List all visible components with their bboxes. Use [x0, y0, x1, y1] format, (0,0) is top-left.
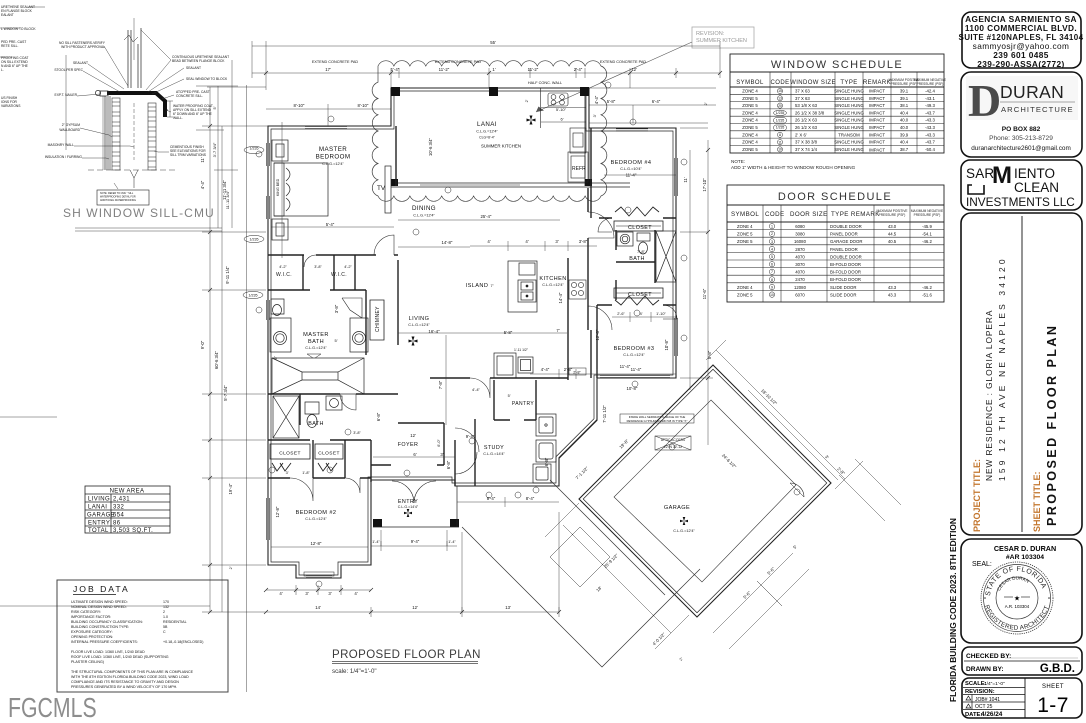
svg-text:scale: 1/4"=1'-0": scale: 1/4"=1'-0": [332, 668, 377, 675]
title block: checked/drawn: [966, 653, 1078, 675]
wall: foyer north: [398, 422, 444, 424]
svg-text:40.5: 40.5: [888, 239, 897, 244]
svg-text:55': 55': [490, 40, 496, 45]
wall: kitchen counter wall east: [567, 258, 569, 380]
svg-text:3,503 SQ.FT.: 3,503 SQ.FT.: [113, 528, 153, 534]
dim: bedroom2 12-8: [271, 546, 368, 548]
svg-text:3'-7 3/4": 3'-7 3/4": [212, 142, 217, 157]
fan: entry: [404, 509, 412, 517]
svg-text:17'-10": 17'-10": [702, 178, 707, 192]
svg-text:-45.9: -45.9: [922, 224, 932, 229]
wall: master bedroom south: [268, 254, 398, 256]
fan: garage: [680, 517, 688, 525]
svg-text:3: 3: [771, 240, 773, 244]
svg-text:NEW AREA: NEW AREA: [110, 489, 145, 495]
svg-text:C.L.G.=12'4": C.L.G.=12'4": [476, 130, 498, 134]
svg-text:9'-11 1/4": 9'-11 1/4": [225, 266, 230, 284]
svg-text:2'-4": 2'-4": [574, 67, 583, 72]
wall: bath2 / shower divider: [299, 394, 301, 425]
wall: closet divider and right: [313, 440, 345, 478]
svg-text:-54.1: -54.1: [922, 232, 932, 237]
bay window in bedroom2: [304, 572, 334, 578]
svg-text:5: 5: [771, 255, 773, 259]
svg-text:1/235: 1/235: [776, 126, 785, 130]
svg-text:PRESSURE (PSF): PRESSURE (PSF): [891, 82, 918, 86]
svg-text:ZONE 5: ZONE 5: [742, 103, 758, 108]
svg-text:BEDROOM #4: BEDROOM #4: [611, 160, 652, 166]
garage outer wall: [579, 365, 831, 617]
svg-text:38.1: 38.1: [900, 103, 909, 108]
svg-text:ZONE 4: ZONE 4: [737, 285, 753, 290]
svg-text:C.L.G.=12'4": C.L.G.=12'4": [542, 283, 564, 287]
window schedule rows: [742, 89, 935, 153]
svg-text:1'-10": 1'-10": [656, 312, 666, 316]
wall: foyer east wall: [370, 440, 372, 482]
svg-text:4'-4": 4'-4": [541, 367, 550, 372]
svg-text:53 1/8 X 63: 53 1/8 X 63: [795, 103, 818, 108]
svg-text:CLOSET: CLOSET: [318, 451, 340, 457]
svg-text:1/235: 1/235: [776, 111, 785, 115]
svg-text:REVISION:: REVISION:: [965, 689, 995, 695]
garage slab inner line: [614, 400, 796, 582]
svg-text:5'-8": 5'-8": [707, 350, 712, 359]
svg-text:ZONE 4: ZONE 4: [737, 224, 753, 229]
svg-text:IMPACT: IMPACT: [869, 110, 885, 115]
svg-text:BI-FOLD DOOR: BI-FOLD DOOR: [830, 262, 861, 267]
svg-text:DRAWN BY:: DRAWN BY:: [966, 666, 1004, 673]
svg-text:OPENING PROTECTION:: OPENING PROTECTION:: [71, 635, 113, 639]
wall: master bath south / bath2 north: [268, 393, 398, 395]
svg-text:10'-8": 10'-8": [627, 386, 638, 391]
svg-text:PANTRY: PANTRY: [512, 401, 534, 407]
svg-text:SEALANT: SEALANT: [73, 61, 88, 65]
dim labels: [279, 40, 666, 610]
svg-text:EALANT: EALANT: [1, 13, 14, 17]
svg-text:DOOR SIZE: DOOR SIZE: [790, 211, 828, 218]
svg-text:20: 20: [778, 104, 782, 108]
svg-text:ZONE 5: ZONE 5: [737, 232, 753, 237]
svg-text:2: 2: [163, 610, 165, 614]
svg-text:IMPORTANCE FACTOR:: IMPORTANCE FACTOR:: [71, 615, 111, 619]
detail: cmu block wall with ladder hatch: [112, 98, 156, 188]
svg-text:BEDROOM #2: BEDROOM #2: [296, 510, 337, 516]
svg-text:C.L.G.=12'4": C.L.G.=12'4": [413, 214, 435, 218]
svg-text:IMPACT: IMPACT: [869, 89, 885, 94]
svg-text:C.L.G.=12'4": C.L.G.=12'4": [673, 529, 695, 533]
svg-text:2,431: 2,431: [113, 497, 130, 503]
svg-text:SINGLE HUNG: SINGLE HUNG: [834, 125, 864, 130]
svg-text:8'-4": 8'-4": [487, 496, 496, 501]
svg-text:SEAL:: SEAL:: [972, 561, 992, 568]
svg-text:RESIDENTIAL: RESIDENTIAL: [163, 620, 187, 624]
column: lanai N mid: [489, 87, 498, 96]
detail: leader lines right: [141, 30, 184, 152]
title block: sarmiento clean logo: [966, 162, 1075, 209]
svg-text:MASTER: MASTER: [303, 332, 329, 338]
svg-text:duranarchitecture2601@gmail.co: duranarchitecture2601@gmail.com: [971, 145, 1071, 152]
svg-text:1/235: 1/235: [249, 294, 258, 298]
svg-text:BUILDING OCCUPANCY CLASSIFIC: BUILDING OCCUPANCY CLASSIFICATION:: [71, 620, 143, 624]
svg-text:PROPOSED FLOOR PLAN: PROPOSED FLOOR PLAN: [1045, 324, 1059, 526]
svg-text:11'-2": 11'-2": [439, 67, 450, 72]
svg-text:OCT 25: OCT 25: [975, 704, 993, 710]
svg-text:EXPOSURE CATEGORY:: EXPOSURE CATEGORY:: [71, 630, 113, 634]
svg-text:7'-11 1/2": 7'-11 1/2": [602, 405, 607, 423]
door number circles: [256, 82, 800, 587]
title block: checked/drawn box: [962, 647, 1082, 675]
exterior wall: house outline: [268, 88, 676, 578]
fixture: summer kitchen grill: [541, 88, 587, 128]
svg-text:C.L.G.=12'4": C.L.G.=12'4": [322, 162, 344, 166]
svg-text:1'-8": 1'-8": [302, 471, 310, 475]
svg-text:SINGLE HUNG: SINGLE HUNG: [834, 147, 864, 152]
svg-text:3070: 3070: [795, 262, 805, 267]
svg-text:WITH PRODUCT APPROVAL: WITH PRODUCT APPROVAL: [61, 45, 105, 49]
svg-text:SEALANT: SEALANT: [186, 66, 201, 70]
svg-text:REFR: REFR: [572, 166, 586, 172]
svg-text:ZONE 4: ZONE 4: [742, 140, 758, 145]
svg-text:10'-6 3/4": 10'-6 3/4": [428, 137, 433, 156]
interior walls: [268, 126, 676, 486]
svg-text:PRESSURE (PSF): PRESSURE (PSF): [879, 213, 906, 217]
svg-text:43.0: 43.0: [888, 224, 897, 229]
svg-text:LIVING: LIVING: [409, 316, 430, 322]
wall: chimney box: [370, 300, 384, 340]
svg-text:CLEAN: CLEAN: [1014, 180, 1059, 195]
svg-text:SINGLE HUNG: SINGLE HUNG: [834, 89, 864, 94]
svg-text:REMARK: REMARK: [863, 80, 891, 86]
svg-text:6: 6: [771, 263, 773, 267]
svg-text:37 X 38 3/8: 37 X 38 3/8: [795, 140, 818, 145]
svg-text:2870: 2870: [795, 247, 805, 252]
svg-text:ATTIC ACCESS: ATTIC ACCESS: [661, 438, 686, 442]
svg-text:BATH: BATH: [308, 339, 324, 345]
svg-text:INSULATION / FURRING: INSULATION / FURRING: [45, 155, 83, 159]
svg-text:39.1: 39.1: [900, 96, 909, 101]
svg-text:IENTO: IENTO: [1014, 166, 1055, 181]
svg-text:4070: 4070: [795, 254, 805, 259]
svg-text:2" GYPSUM: 2" GYPSUM: [62, 123, 80, 127]
svg-text:40.4: 40.4: [900, 110, 909, 115]
svg-text:SINGLE HUNG: SINGLE HUNG: [834, 103, 864, 108]
svg-text:PANEL DOOR: PANEL DOOR: [830, 247, 858, 252]
svg-text:-42.4: -42.4: [925, 89, 935, 94]
svg-text:WINDOW SIZE: WINDOW SIZE: [790, 80, 836, 86]
wall: study west: [454, 440, 456, 486]
entry walkway diagonals: [462, 480, 700, 667]
svg-text:G.B.D.: G.B.D.: [1040, 663, 1075, 675]
svg-text:10: 10: [778, 148, 782, 152]
svg-text:CLOSET: CLOSET: [628, 225, 652, 231]
svg-text:PLASTER CEILING): PLASTER CEILING): [71, 660, 104, 664]
svg-text:7: 7: [771, 270, 773, 274]
door schedule rows: [737, 224, 933, 297]
svg-text:THE STRUCTURAL COMPONENTS O: THE STRUCTURAL COMPONENTS OF THIS PLAN A…: [71, 670, 194, 674]
dim: bottom row2: [266, 611, 559, 613]
svg-text:STUDY: STUDY: [484, 445, 504, 451]
svg-text:GARAGE: GARAGE: [87, 513, 115, 519]
svg-text:40.4: 40.4: [900, 140, 909, 145]
svg-text:C.L.G.=10'4": C.L.G.=10'4": [620, 167, 642, 171]
title block: scale/revision/date + sheet number: [963, 678, 1069, 718]
dim: top row y73: [252, 72, 720, 74]
svg-text:9: 9: [771, 285, 773, 289]
east wall windows: [267, 129, 678, 540]
svg-text:N AND 6" UP THE: N AND 6" UP THE: [1, 64, 29, 68]
svg-text:FLORIDA BUILDING CODE 2023. 8T: FLORIDA BUILDING CODE 2023. 8TH EDITION: [948, 518, 958, 702]
svg-text:TYPE: TYPE: [840, 80, 857, 86]
svg-text:11'-11 3/4": 11'-11 3/4": [225, 190, 230, 209]
svg-text:1100 COMMERCIAL BLVD.: 1100 COMMERCIAL BLVD.: [965, 23, 1077, 33]
svg-text:43.3: 43.3: [888, 285, 897, 290]
svg-text:8: 8: [771, 278, 773, 282]
wall: bedroom4 west: [590, 128, 592, 218]
porch: entry front columns and slab: [373, 519, 382, 527]
svg-text:ADD 1" WIDTH & HEIGHT TO WINDO: ADD 1" WIDTH & HEIGHT TO WINDOW ROUGH OP…: [731, 165, 856, 170]
title block: duran logo: [966, 75, 1078, 152]
svg-text:2'-6": 2'-6": [617, 312, 625, 316]
svg-text:KING BED: KING BED: [276, 178, 280, 196]
svg-text:2'-8": 2'-8": [573, 370, 581, 374]
svg-text:4'-2": 4'-2": [279, 265, 287, 269]
dim: top overall 55': [252, 45, 720, 47]
wall: bedroom3 west: [596, 305, 598, 378]
svg-text:12': 12': [412, 605, 418, 610]
wall: bedroom3 south window: [600, 375, 670, 377]
detail: note box: [97, 190, 149, 205]
svg-text:11'-4": 11'-4": [620, 364, 631, 369]
svg-text:1/235: 1/235: [776, 118, 785, 122]
dim: below wing y374: [530, 373, 676, 375]
svg-text:CODE: CODE: [765, 211, 784, 218]
svg-text:14'-4": 14'-4": [558, 292, 563, 303]
svg-text:SAR: SAR: [966, 166, 994, 181]
title block: project title vertical text: [972, 256, 1059, 532]
fixture: bath3: [617, 231, 676, 282]
svg-text:12'-8": 12'-8": [275, 506, 280, 517]
svg-text:BEDROOM: BEDROOM: [316, 154, 351, 161]
closets: hall closets left: [270, 444, 343, 471]
svg-text:9'-0": 9'-0": [200, 340, 205, 349]
svg-text:2470: 2470: [795, 277, 805, 282]
dim: second row y87 master: [207, 86, 266, 88]
fixture: fridge pantry: [494, 353, 533, 378]
svg-text:BATH: BATH: [308, 421, 324, 427]
svg-text:REVISION:: REVISION:: [696, 31, 725, 37]
svg-text:LIVING: LIVING: [88, 497, 110, 503]
svg-text:FLOOR LIVE LOAD: 1/360 LIV: FLOOR LIVE LOAD: 1/360 LIVE, 1/240 DEAD: [71, 650, 145, 654]
svg-text:17': 17': [325, 67, 331, 72]
svg-text:8'-10": 8'-10": [294, 103, 305, 108]
svg-text:RETE SILL.: RETE SILL.: [1, 44, 18, 48]
svg-text:60'-6 3/4": 60'-6 3/4": [214, 350, 219, 369]
dim: right top: [589, 104, 716, 106]
svg-text:7': 7': [491, 283, 494, 288]
svg-text:1/235: 1/235: [250, 238, 259, 242]
closets: bedroom4 wing: [614, 207, 663, 305]
svg-text:132: 132: [163, 605, 169, 609]
svg-text:-43.3: -43.3: [925, 132, 935, 137]
svg-text:BUILDING CONSTRUCTION TYPE:: BUILDING CONSTRUCTION TYPE:: [71, 625, 129, 629]
entry double door arcs: [392, 481, 414, 503]
svg-text:16'-4": 16'-4": [428, 329, 440, 334]
rotated dim labels: [200, 95, 846, 661]
title block: seal box: [961, 539, 1082, 643]
title block: agencia sarmiento box: [962, 12, 1081, 68]
svg-text:CLOSET: CLOSET: [279, 451, 301, 457]
svg-text:1': 1': [492, 67, 495, 72]
svg-text:5'-8": 5'-8": [504, 330, 513, 335]
svg-text:TOTAL: TOTAL: [88, 528, 109, 534]
svg-text:86: 86: [113, 521, 121, 527]
svg-text:10'-8": 10'-8": [664, 339, 669, 350]
title block: sarmiento clean investments box: [961, 160, 1082, 210]
svg-text:PO BOX 882: PO BOX 882: [1002, 126, 1041, 133]
svg-text:ZONE 5: ZONE 5: [737, 239, 753, 244]
svg-text:239-290-ASSA(2772): 239-290-ASSA(2772): [977, 59, 1064, 69]
svg-text:9'-4": 9'-4": [466, 434, 475, 439]
svg-text:ROOF LIVE LOAD: 1/360 LIVE: ROOF LIVE LOAD: 1/360 LIVE, 1/240 DEAD (…: [71, 655, 169, 659]
svg-text:16080: 16080: [794, 239, 807, 244]
svg-text:GARAGE DOOR: GARAGE DOOR: [830, 239, 862, 244]
svg-text:25'-4": 25'-4": [481, 214, 492, 219]
svg-text:-46.2: -46.2: [922, 285, 932, 290]
svg-text:#AR 103304: #AR 103304: [1006, 554, 1044, 561]
svg-text:NOMINAL DESIGN WIND SPEED:: NOMINAL DESIGN WIND SPEED:: [71, 605, 127, 609]
svg-text:6': 6': [561, 117, 564, 122]
window schedule code symbols: [774, 88, 787, 152]
svg-text:DINING: DINING: [412, 205, 436, 212]
architect seal circle: [981, 562, 1053, 634]
svg-text:6070: 6070: [795, 292, 805, 297]
svg-text:19'-4": 19'-4": [228, 483, 233, 494]
new area table: [85, 486, 170, 533]
detail: ground dashes: [88, 169, 175, 171]
svg-text:WALL.: WALL.: [173, 116, 183, 120]
svg-text:13: 13: [778, 97, 782, 101]
svg-text:M: M: [992, 162, 1012, 189]
dim: garage SW outer: [563, 525, 671, 633]
detail: insulation/gypsum layers: [106, 96, 111, 170]
svg-text:ARCHITECTURE: ARCHITECTURE: [1001, 105, 1074, 114]
svg-text:3': 3': [305, 591, 308, 596]
detail: window jamb verticals: [124, 18, 141, 88]
svg-text:PANEL DOOR: PANEL DOOR: [830, 232, 858, 237]
wall: pantry west: [474, 419, 476, 486]
svg-text:3': 3': [328, 591, 331, 596]
svg-text:1'-4": 1'-4": [448, 540, 456, 544]
dim: left vertical main: [209, 87, 211, 612]
svg-text:43.3: 43.3: [888, 292, 897, 297]
svg-text:11'-4": 11'-4": [631, 367, 642, 372]
svg-text:2': 2': [525, 99, 529, 102]
svg-text:-43.3: -43.3: [925, 118, 935, 123]
detail: labels left: [45, 41, 106, 159]
fan: living: [409, 337, 418, 346]
dim: dining 25-4: [398, 219, 560, 221]
svg-text:L WINDOW TO BLOCK: L WINDOW TO BLOCK: [1, 27, 36, 31]
svg-text:IMPACT: IMPACT: [869, 125, 885, 130]
dim: kitchen row: [470, 245, 597, 247]
dim: bottom row1: [266, 589, 371, 591]
svg-text:1.0: 1.0: [163, 615, 168, 619]
svg-text:6'-4": 6'-4": [652, 99, 661, 104]
svg-text:8'-10": 8'-10": [358, 103, 369, 108]
svg-text:13': 13': [505, 605, 511, 610]
svg-text:D: D: [968, 75, 1001, 126]
svg-text:IMPACT: IMPACT: [869, 96, 885, 101]
svg-text:39.9: 39.9: [900, 132, 909, 137]
window schedule table frame: [730, 54, 944, 153]
svg-text:CODE: CODE: [771, 80, 790, 86]
svg-text:SUMMER KITCHEN: SUMMER KITCHEN: [481, 144, 521, 149]
svg-text:+0.18,-0.18(ENCLOSED): +0.18,-0.18(ENCLOSED): [163, 640, 203, 644]
svg-text:CESAR D. DURAN: CESAR D. DURAN: [994, 544, 1056, 553]
furniture: master bed: [272, 140, 328, 240]
svg-text:-43.3: -43.3: [925, 125, 935, 130]
svg-text:12'-8": 12'-8": [311, 541, 322, 546]
svg-text:PROJECT TITLE:: PROJECT TITLE:: [972, 459, 982, 532]
detail: leader lines left: [74, 46, 134, 189]
svg-text:ISLAND: ISLAND: [466, 283, 489, 289]
svg-text:IMPACT: IMPACT: [869, 148, 885, 153]
door schedule code symbols: [769, 224, 774, 298]
svg-text:15: 15: [778, 89, 782, 93]
svg-text:4: 4: [771, 247, 773, 251]
svg-text:3': 3': [286, 471, 289, 475]
svg-text:ADDITIONAL WATERPROOFING: ADDITIONAL WATERPROOFING: [100, 199, 136, 202]
svg-text:3': 3': [555, 239, 558, 244]
svg-text:NEW RESIDENCE : GLORIA LOPERA: NEW RESIDENCE : GLORIA LOPERA: [984, 310, 994, 481]
svg-text:1-7: 1-7: [1037, 694, 1069, 717]
svg-text:C.L.G.=14'4": C.L.G.=14'4": [398, 505, 419, 509]
svg-text:CHECKED BY:: CHECKED BY:: [966, 653, 1011, 660]
svg-text:TYPE REMARK: TYPE REMARK: [831, 211, 880, 218]
column: lanai NW: [391, 87, 400, 96]
door arcs: [290, 212, 677, 501]
svg-text:CLOSET: CLOSET: [628, 292, 652, 298]
garage entry door arc (NE side): [790, 483, 804, 497]
svg-text:ZONE 4: ZONE 4: [742, 118, 758, 123]
dimension tick slashes: [208, 71, 722, 614]
sliding door lines in lanai south wall: [420, 184, 520, 186]
svg-text:6080: 6080: [795, 224, 805, 229]
svg-text:COMPLIANCE AND ITS RESISTAN: COMPLIANCE AND ITS RESISTANCE TO GRAVITY…: [71, 680, 179, 684]
svg-text:WINDOW SCHEDULE: WINDOW SCHEDULE: [771, 59, 903, 71]
svg-text:JOB DATA: JOB DATA: [73, 584, 130, 594]
svg-text:SHEET: SHEET: [1042, 684, 1064, 690]
svg-text:4': 4': [279, 591, 282, 596]
ceiling fans: [404, 116, 688, 526]
svg-text:5': 5': [508, 394, 511, 398]
svg-text:5'-7 3/4": 5'-7 3/4": [223, 385, 228, 401]
svg-text:IMPACT: IMPACT: [869, 132, 885, 137]
dim: entry 9-4: [371, 545, 457, 547]
svg-text:SINGLE HUNG: SINGLE HUNG: [834, 140, 864, 145]
svg-text:SHEET TITLE:: SHEET TITLE:: [1032, 471, 1042, 532]
svg-text:ZONE 5: ZONE 5: [742, 96, 758, 101]
label: garage separation note: [620, 414, 694, 423]
title block: seal area: [972, 544, 1056, 634]
svg-text:DOUBLE DOOR: DOUBLE DOOR: [830, 224, 862, 229]
svg-text:DURAN: DURAN: [1000, 82, 1064, 102]
svg-text:GARAGE: GARAGE: [664, 505, 690, 511]
svg-text:12080: 12080: [794, 285, 807, 290]
svg-text:CLG=8'-4": CLG=8'-4": [479, 136, 495, 140]
svg-text:ZONE 4: ZONE 4: [742, 110, 758, 115]
svg-text:11: 11: [778, 140, 782, 144]
svg-text:HALF CONC. WALL: HALF CONC. WALL: [528, 81, 562, 85]
